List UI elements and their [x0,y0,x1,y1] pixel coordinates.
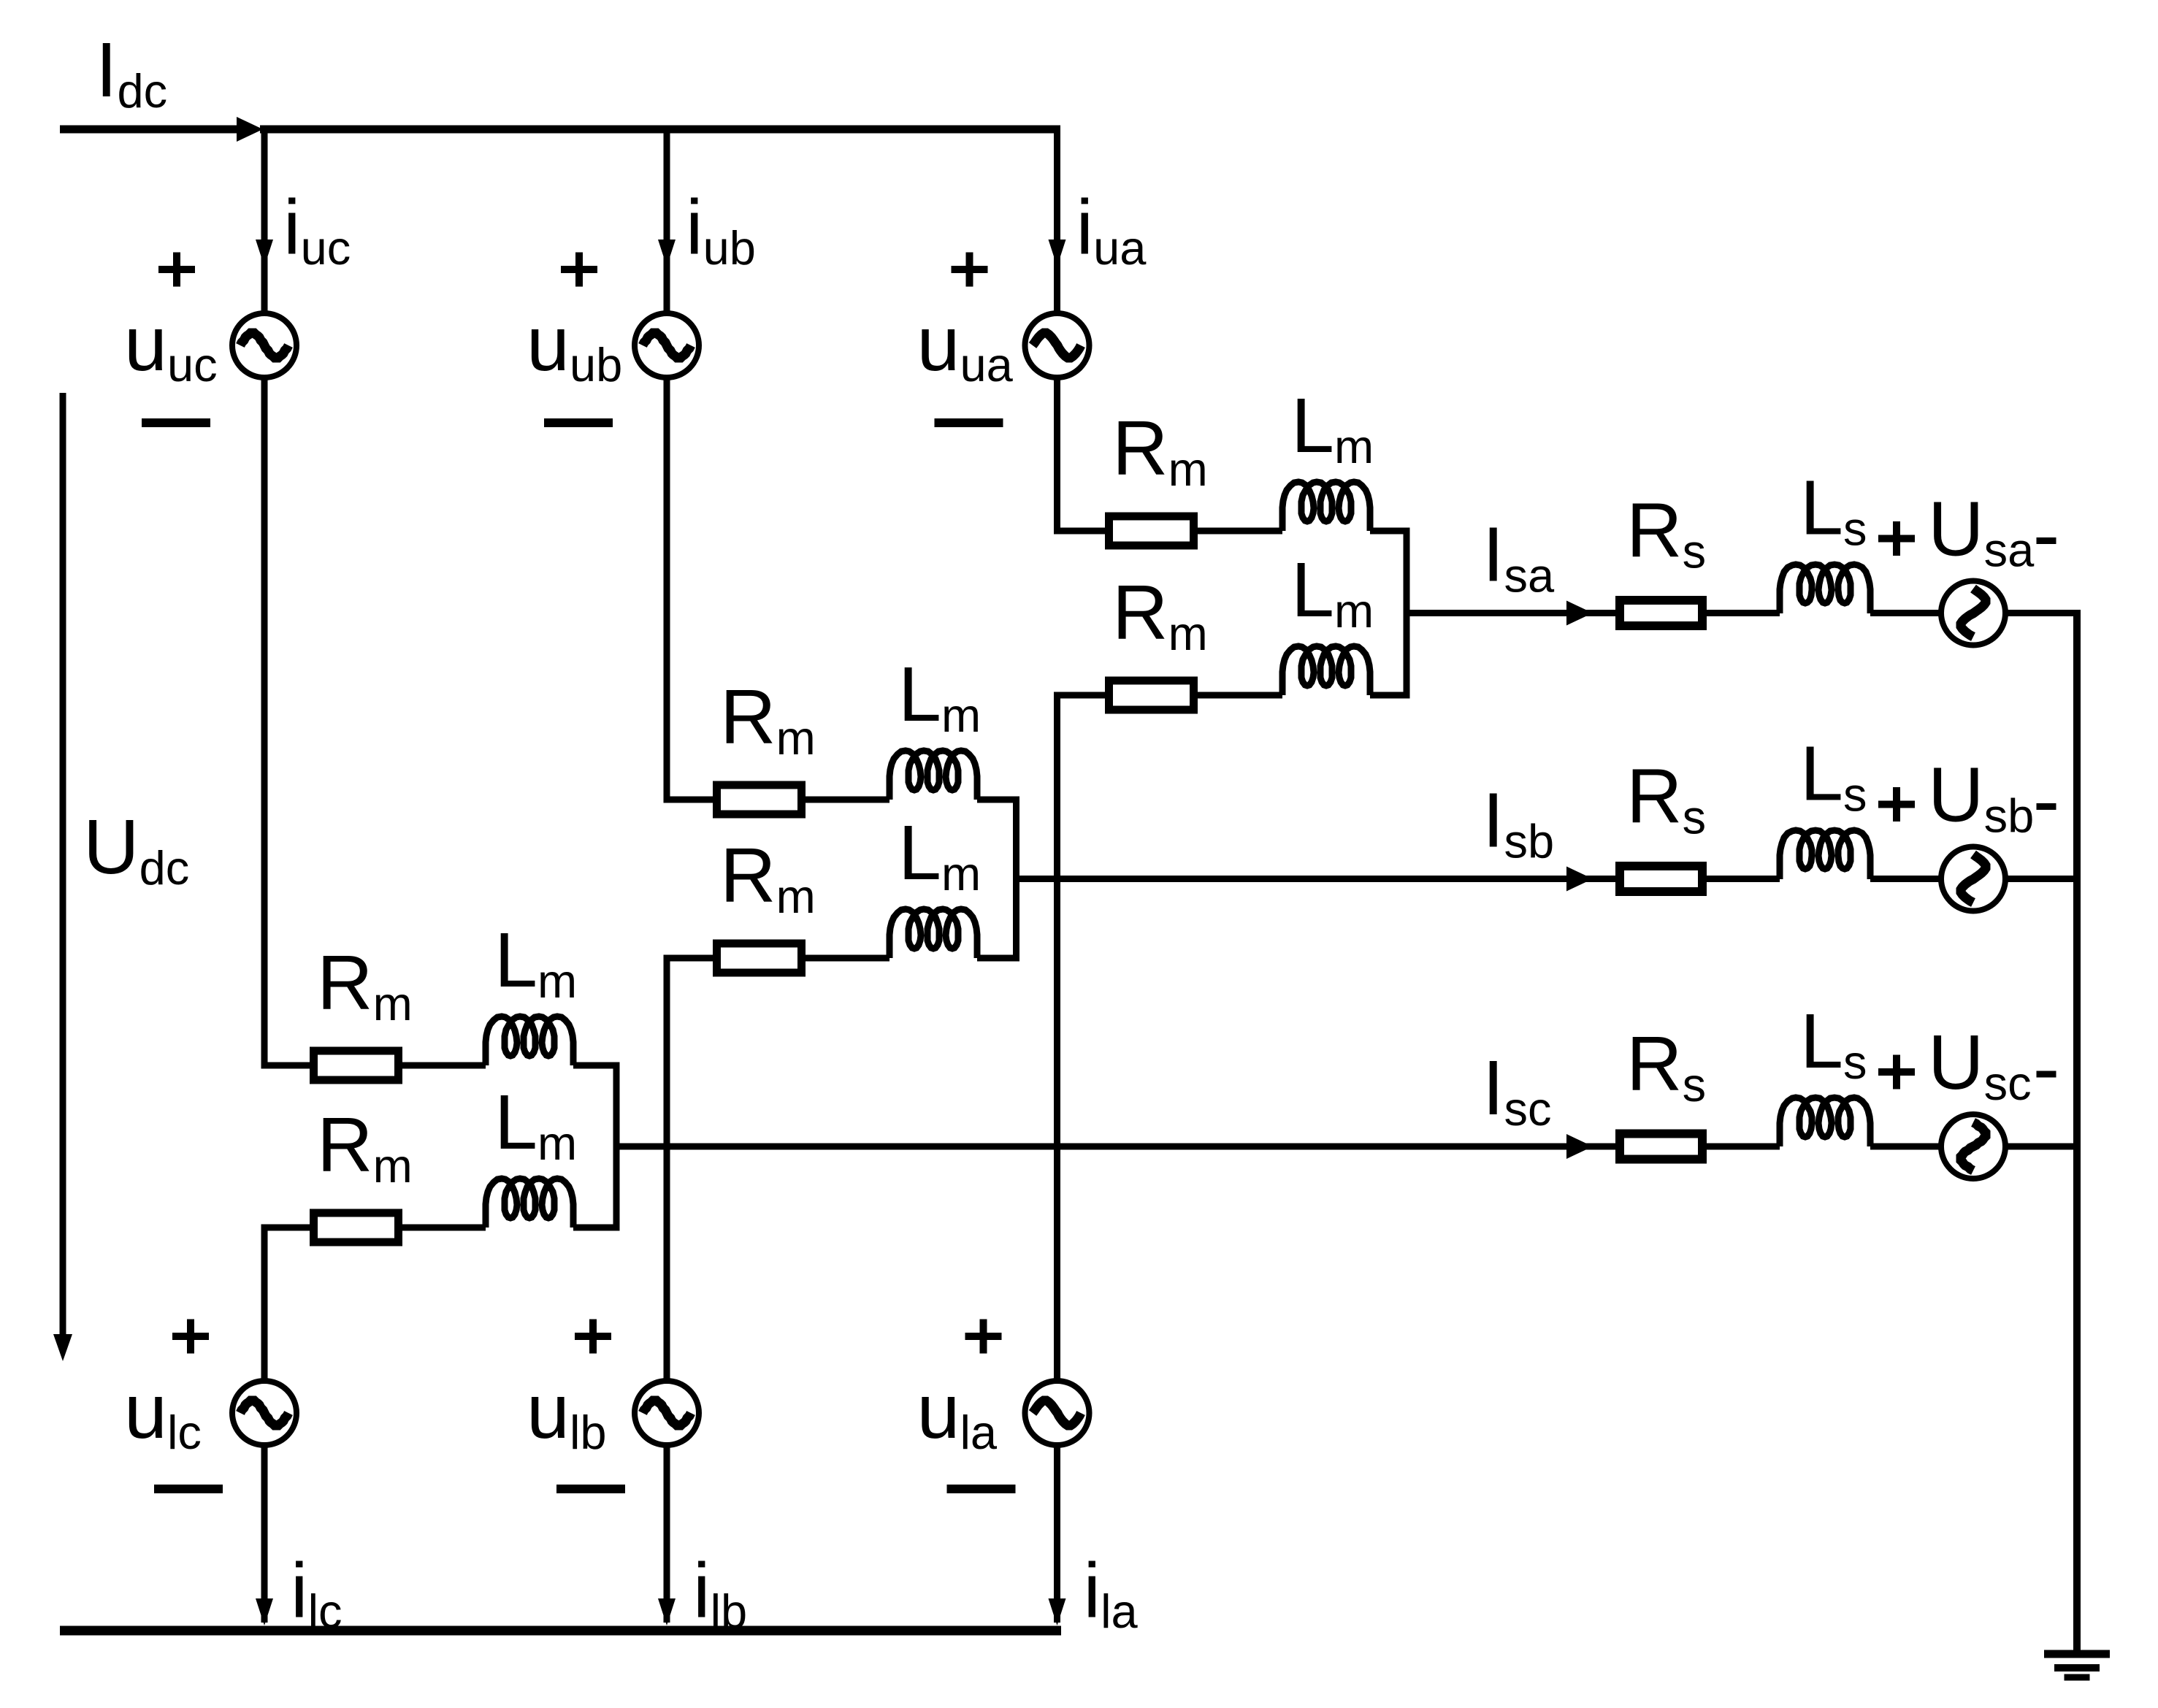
svg-text:Lm: Lm [898,810,981,900]
node U_dc arrow [60,393,66,1336]
wire junction to L_m lower c [573,1225,620,1231]
wire R_m to L_m upper a [1198,528,1282,535]
inductor L_m lower a [1282,646,1370,695]
svg-text:ilc: ilc [291,1547,343,1638]
svg-text:iuc: iuc [283,184,351,275]
source U_sb [1941,847,2005,911]
svg-text:Rm: Rm [720,674,816,765]
resistor R_s b [1620,866,1702,892]
wire right AC bus [2073,613,2081,1655]
inductor L_m upper b [889,751,977,800]
wire bottom DC bus [60,1626,1061,1636]
svg-text:Isb: Isb [1482,778,1554,868]
svg-text:Lm: Lm [494,917,577,1008]
wire L_s to source b [1870,876,1941,882]
wire L_s to source a [1870,610,1941,616]
svg-text:Usb: Usb [1928,752,2034,843]
source u_lc [232,1381,296,1445]
svg-text:uua: uua [917,301,1014,391]
wire upper arm vertical phase c [261,129,268,313]
ground [2044,1650,2110,1658]
inductor L_s c [1780,1098,1870,1146]
node I_sb arrow [1566,867,1593,892]
source U_sc [1941,1114,2005,1179]
wire upper arm vertical lower phase b [664,378,670,803]
node i_ub arrow [658,240,676,267]
wire lower arm vertical phase b [664,955,670,1382]
node i_la arrow [1049,1598,1066,1625]
label - (u_ua) [935,418,1003,427]
svg-text:ila: ila [1084,1547,1139,1638]
svg-text:Ls: Ls [1800,998,1867,1089]
node I_sa arrow [1566,601,1593,626]
wire source to bottom bus phase a [1054,1445,1060,1623]
node i_lc arrow [256,1598,273,1625]
source u_la [1025,1381,1090,1445]
resistor R_m lower b [717,943,802,973]
label - (U_sc) [2037,1071,2056,1078]
wire top DC bus [260,126,1060,134]
source u_ua [1025,313,1090,378]
wire R_m to vertical lower a [1054,692,1105,699]
svg-text:Rm: Rm [317,1102,413,1192]
node i_uc arrow [256,240,273,267]
svg-text:Isc: Isc [1482,1045,1551,1136]
label - (u_ub) [544,418,613,427]
source u_uc [232,313,296,378]
svg-text:uub: uub [527,301,622,391]
svg-text:Isa: Isa [1482,512,1555,602]
label + (u_uc) [158,266,195,273]
wire R_m to L_m upper b [806,797,889,803]
wire L_m to junction upper c [573,1062,620,1069]
wire I_sa output [1407,610,1615,616]
wire R_m to vertical lower b [664,955,713,962]
label - (u_uc) [142,418,210,427]
wire upper arm vertical phase a [1054,129,1060,313]
wire upper arm vertical lower phase a [1054,378,1060,535]
wire source to bottom bus phase c [261,1445,268,1623]
wire I_sb output [1017,876,1616,882]
label - (u_lc) [154,1485,223,1493]
wire upper arm vertical phase b [664,129,670,313]
svg-text:ula: ula [917,1368,998,1459]
svg-text:Usc: Usc [1928,1019,2032,1110]
svg-text:iub: iub [686,184,756,275]
label + (U_sc) [1878,1068,1915,1076]
label - (u_lb) [556,1485,625,1493]
label + (U_sa) [1878,535,1915,543]
wire junction to L_m lower a [1370,692,1410,699]
inductor L_m lower c [486,1179,573,1228]
resistor R_m lower a [1109,681,1194,710]
wire upper arm horizontal phase a [1054,528,1105,535]
svg-text:Ls: Ls [1800,731,1867,822]
wire L_m to R_m lower b [806,955,889,962]
wire lower arm vertical phase a [1054,692,1060,1382]
wire upper arm horizontal phase c [261,1062,310,1069]
svg-text:Rm: Rm [317,940,413,1030]
resistor R_m lower c [314,1213,399,1242]
node i_ua arrow [1049,240,1066,267]
label + (u_la) [965,1333,1002,1340]
svg-text:Idc: Idc [96,27,167,118]
wire lower arm vertical phase c [261,1225,268,1382]
svg-text:Lm: Lm [494,1079,577,1170]
source U_sa [1941,581,2005,646]
wire R_s to L_s c [1707,1144,1780,1150]
wire R_s to L_s b [1707,876,1780,882]
svg-text:Ls: Ls [1800,465,1867,556]
wire upper arm vertical lower phase c [261,378,268,1069]
wire L_m to junction upper b [977,797,1019,803]
resistor R_m upper b [717,785,802,814]
resistor R_s c [1620,1134,1702,1160]
label - (U_sb) [2037,803,2056,810]
wire junction vertical phase a [1404,531,1410,695]
inductor L_m upper c [486,1016,573,1065]
svg-text:Rs: Rs [1626,1021,1706,1111]
wire L_s to source c [1870,1144,1941,1150]
source u_lb [635,1381,699,1445]
svg-text:Rm: Rm [1112,570,1208,660]
label + (u_lb) [575,1333,611,1340]
wire I_sc output [616,1144,1615,1150]
wire upper arm horizontal phase b [664,797,713,803]
wire source to right bus c [2005,1144,2081,1150]
label - (u_la) [947,1485,1016,1493]
wire I_dc feed [60,126,241,134]
wire source to right bus b [2005,876,2081,882]
resistor R_s a [1620,600,1702,626]
svg-text:Rs: Rs [1626,754,1706,844]
svg-text:Lm: Lm [1291,383,1374,473]
svg-text:uuc: uuc [124,301,218,391]
wire junction vertical phase b [1013,800,1019,958]
wire L_m to R_m lower c [402,1225,486,1231]
wire R_s to L_s a [1707,610,1780,616]
svg-text:ulb: ulb [527,1368,607,1459]
svg-text:Rs: Rs [1626,488,1706,578]
node i_lb arrow [658,1598,676,1625]
wire junction to L_m lower b [977,955,1019,962]
wire source to bottom bus phase b [664,1445,670,1623]
svg-text:Rm: Rm [1112,405,1208,496]
inductor L_s b [1780,830,1870,879]
inductor L_s a [1780,564,1870,613]
node I_sc arrow [1566,1134,1593,1159]
wire source to right bus a [2005,610,2081,616]
inductor L_m upper a [1282,482,1370,531]
svg-text:Lm: Lm [1291,547,1374,637]
resistor R_m upper c [314,1051,399,1080]
wire R_m to vertical lower c [261,1225,310,1231]
svg-text:ilb: ilb [693,1547,747,1638]
node DC+ arrow (I_dc) [237,117,263,142]
label + (U_sb) [1878,801,1915,808]
svg-text:ulc: ulc [124,1368,202,1459]
svg-text:iua: iua [1076,184,1147,275]
resistor R_m upper a [1109,516,1194,545]
svg-text:Rm: Rm [720,832,816,923]
wire L_m to R_m lower a [1198,692,1282,699]
source u_ub [635,313,699,378]
svg-text:Usa: Usa [1928,486,2035,577]
wire L_m to junction upper a [1370,528,1410,535]
label + (u_lc) [172,1333,209,1340]
wire R_m to L_m upper c [402,1062,486,1069]
svg-text:Udc: Udc [83,804,189,895]
label - (U_sa) [2037,537,2056,544]
label + (u_ub) [561,266,597,273]
label + (u_ua) [952,266,988,273]
inductor L_m lower b [889,909,977,958]
wire junction vertical phase c [613,1065,620,1228]
svg-text:Lm: Lm [898,651,981,742]
